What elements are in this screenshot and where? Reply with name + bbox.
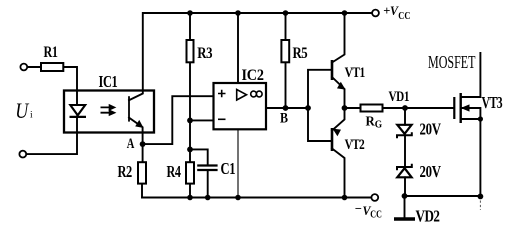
svg-text:R3: R3 (197, 45, 212, 62)
svg-text:i: i (30, 111, 33, 121)
svg-text:VT2: VT2 (345, 135, 365, 152)
svg-text:20V: 20V (420, 121, 442, 139)
svg-text:CC: CC (370, 209, 382, 220)
svg-text:U: U (15, 99, 29, 123)
svg-text:20V: 20V (420, 163, 442, 181)
svg-text:IC2: IC2 (242, 68, 264, 85)
svg-text:VD1: VD1 (389, 87, 410, 104)
svg-text:R2: R2 (118, 163, 132, 181)
svg-text:R4: R4 (167, 163, 182, 181)
svg-text:R: R (366, 113, 376, 128)
svg-text:VT3: VT3 (482, 94, 503, 113)
svg-text:A: A (127, 135, 135, 151)
svg-text:R5: R5 (293, 45, 308, 62)
svg-text:B: B (280, 109, 288, 125)
svg-text:−: − (355, 202, 362, 216)
svg-text:C1: C1 (221, 160, 236, 178)
svg-text:IC1: IC1 (99, 73, 118, 91)
svg-text:G: G (375, 119, 383, 130)
svg-text:CC: CC (398, 11, 410, 22)
svg-text:R1: R1 (44, 43, 58, 61)
svg-text:VD2: VD2 (416, 208, 440, 226)
svg-text:MOSFET: MOSFET (428, 53, 476, 73)
svg-text:VT1: VT1 (345, 63, 366, 80)
